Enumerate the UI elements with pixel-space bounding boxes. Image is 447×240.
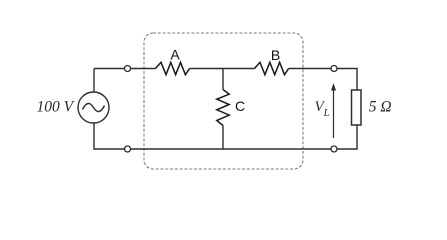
wire: resistor A to resistor B (through node of C) [190,68,255,70]
svg-text:100 V: 100 V [37,99,75,116]
wire: top-right node to load corner [337,69,357,91]
svg-text:5 Ω: 5 Ω [369,99,392,116]
resistor A [156,62,190,74]
wire: source top lead [93,69,95,93]
svg-text:VL: VL [315,99,330,119]
wire: resistor B to top-right node [289,68,331,70]
wire: top-left horizontal to node [94,68,125,70]
arrow: load voltage VL reference (points up) [331,83,336,138]
wire: node to resistor A [131,68,156,70]
svg-text:C: C [235,98,245,114]
resistor C (vertical) [217,90,229,126]
load resistor RL 5 ohm (rectangle) [352,90,362,125]
resistor B [255,62,289,74]
node: bottom-left terminal [125,146,131,152]
svg-text:B: B [271,47,280,63]
wire: shunt branch top lead [222,69,224,90]
wire: bottom horizontal (right node to left node) [131,148,332,150]
svg-text:A: A [170,47,180,63]
wire: load bottom lead and bottom-right corner [337,125,357,149]
node: bottom-right terminal [331,146,337,152]
wire: bottom-left to source bottom lead [94,123,125,149]
wire: shunt branch bottom lead [222,126,224,150]
voltage source VS 100 V (AC) [78,92,109,123]
dashed two-port network boundary box [144,33,303,169]
node: top-right terminal [331,66,337,72]
node: top-left terminal [125,66,131,72]
